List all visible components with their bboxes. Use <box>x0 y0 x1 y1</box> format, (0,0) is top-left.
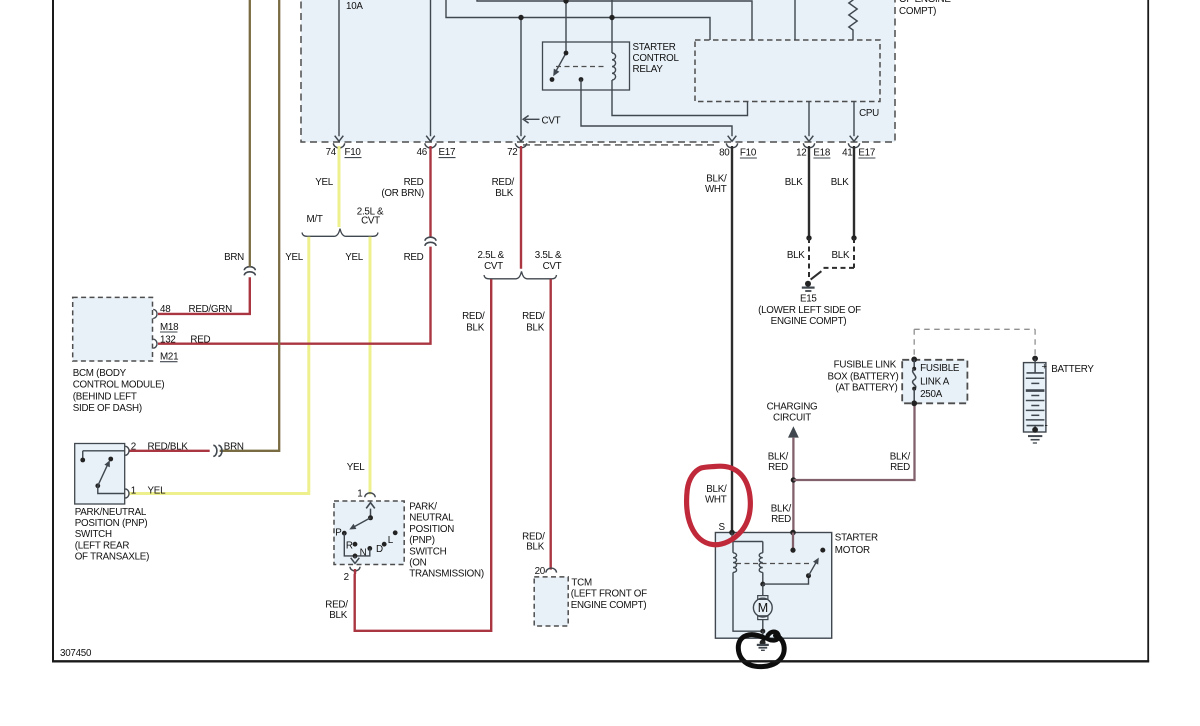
svg-text:74: 74 <box>326 147 337 158</box>
svg-text:BLK: BLK <box>787 250 805 261</box>
svg-text:(BEHIND LEFT: (BEHIND LEFT <box>73 391 137 402</box>
svg-text:ENGINE COMPT): ENGINE COMPT) <box>771 316 847 327</box>
svg-text:BCM (BODY: BCM (BODY <box>73 368 127 379</box>
svg-text:307450: 307450 <box>60 648 92 659</box>
svg-text:BLK: BLK <box>832 250 850 261</box>
svg-text:D: D <box>376 544 383 555</box>
svg-text:P: P <box>335 527 342 538</box>
svg-text:(ON: (ON <box>409 558 426 569</box>
svg-text:L: L <box>388 535 394 546</box>
svg-text:(LOWER LEFT SIDE OF: (LOWER LEFT SIDE OF <box>758 305 861 316</box>
svg-text:BLK: BLK <box>831 177 849 188</box>
svg-text:20: 20 <box>535 566 546 577</box>
svg-text:M21: M21 <box>160 352 178 363</box>
svg-text:OF TRANSAXLE): OF TRANSAXLE) <box>75 552 149 563</box>
svg-text:STARTER: STARTER <box>633 42 676 53</box>
svg-text:RED/GRN: RED/GRN <box>189 304 233 315</box>
svg-text:RED/: RED/ <box>462 311 485 322</box>
svg-text:RED/: RED/ <box>492 177 515 188</box>
svg-text:(LEFT FRONT OF: (LEFT FRONT OF <box>571 589 647 600</box>
svg-text:BATTERY: BATTERY <box>1051 364 1094 375</box>
svg-text:LINK A: LINK A <box>920 377 950 388</box>
svg-text:(OR BRN): (OR BRN) <box>381 188 424 199</box>
svg-text:+: + <box>1042 361 1048 372</box>
svg-text:YEL: YEL <box>148 485 167 496</box>
svg-text:RED: RED <box>771 514 791 525</box>
svg-text:POSITION (PNP): POSITION (PNP) <box>75 518 148 529</box>
svg-text:M18: M18 <box>160 322 179 333</box>
svg-text:SWITCH: SWITCH <box>409 546 446 557</box>
svg-text:BLK/: BLK/ <box>771 504 792 515</box>
svg-text:SWITCH: SWITCH <box>75 529 112 540</box>
svg-text:BLK/: BLK/ <box>890 452 911 463</box>
svg-text:(AT BATTERY): (AT BATTERY) <box>835 383 897 394</box>
svg-text:41: 41 <box>842 148 852 159</box>
svg-text:(PNP): (PNP) <box>409 535 434 546</box>
svg-text:(LEFT REAR: (LEFT REAR <box>75 540 130 551</box>
svg-text:CONTROL: CONTROL <box>633 53 680 64</box>
svg-text:YEL: YEL <box>315 177 334 188</box>
svg-text:80: 80 <box>719 148 730 159</box>
svg-text:PARK/: PARK/ <box>409 502 437 513</box>
svg-text:RED: RED <box>190 335 210 346</box>
svg-text:STARTER: STARTER <box>835 533 878 544</box>
svg-text:1: 1 <box>131 485 136 496</box>
svg-text:CONTROL MODULE): CONTROL MODULE) <box>73 380 165 391</box>
svg-text:12: 12 <box>796 148 806 159</box>
svg-text:FUSIBLE LINK: FUSIBLE LINK <box>834 359 897 370</box>
svg-text:10A: 10A <box>346 1 363 12</box>
svg-text:2: 2 <box>131 441 136 452</box>
svg-text:1: 1 <box>357 489 362 500</box>
svg-text:CVT: CVT <box>484 261 503 272</box>
svg-text:3.5L &: 3.5L & <box>535 250 562 261</box>
svg-text:250A: 250A <box>920 389 943 400</box>
svg-text:RED/: RED/ <box>325 599 348 610</box>
svg-text:TRANSMISSION): TRANSMISSION) <box>409 569 484 580</box>
svg-text:BLK/: BLK/ <box>768 452 789 463</box>
svg-text:NEUTRAL: NEUTRAL <box>409 513 454 524</box>
svg-text:RED/BLK: RED/BLK <box>148 442 189 453</box>
svg-text:TCM: TCM <box>571 577 592 588</box>
svg-text:CHARGING: CHARGING <box>767 402 818 413</box>
svg-text:POSITION: POSITION <box>409 524 454 535</box>
svg-text:CVT: CVT <box>542 116 561 127</box>
svg-text:RED: RED <box>890 462 910 473</box>
svg-text:R: R <box>346 540 353 551</box>
svg-text:PARK/NEUTRAL: PARK/NEUTRAL <box>75 507 147 518</box>
svg-text:BLK: BLK <box>466 323 484 334</box>
svg-text:CPU: CPU <box>859 108 879 119</box>
svg-text:WHT: WHT <box>705 184 727 195</box>
svg-text:E17: E17 <box>439 147 456 158</box>
svg-text:FUSIBLE: FUSIBLE <box>920 363 960 374</box>
svg-text:BOX (BATTERY): BOX (BATTERY) <box>828 371 899 382</box>
svg-text:46: 46 <box>417 147 428 158</box>
svg-text:RED: RED <box>404 177 424 188</box>
svg-text:SIDE OF DASH): SIDE OF DASH) <box>73 403 142 414</box>
svg-text:YEL: YEL <box>347 462 366 473</box>
svg-text:BLK: BLK <box>785 177 803 188</box>
svg-text:RED: RED <box>404 252 424 263</box>
svg-text:OF ENGINE: OF ENGINE <box>899 0 951 5</box>
svg-text:MOTOR: MOTOR <box>835 545 870 556</box>
svg-text:E17: E17 <box>858 148 875 159</box>
svg-text:WHT: WHT <box>705 494 727 505</box>
svg-text:72: 72 <box>507 147 517 158</box>
svg-text:RED: RED <box>768 462 788 473</box>
svg-text:2: 2 <box>344 572 349 583</box>
svg-text:BRN: BRN <box>224 442 244 453</box>
svg-text:F10: F10 <box>345 147 362 158</box>
svg-text:YEL: YEL <box>285 252 304 263</box>
svg-text:RELAY: RELAY <box>633 64 664 75</box>
svg-text:BRN: BRN <box>224 252 244 263</box>
svg-text:48: 48 <box>160 304 171 315</box>
svg-text:132: 132 <box>160 335 176 346</box>
svg-text:CVT: CVT <box>361 215 380 226</box>
svg-text:BLK: BLK <box>495 188 513 199</box>
svg-text:S: S <box>719 522 726 533</box>
svg-text:ENGINE COMPT): ENGINE COMPT) <box>571 600 647 611</box>
svg-text:CIRCUIT: CIRCUIT <box>773 413 811 424</box>
svg-text:YEL: YEL <box>345 252 364 263</box>
svg-text:E18: E18 <box>813 148 830 159</box>
svg-text:COMPT): COMPT) <box>899 6 936 17</box>
svg-text:BLK/: BLK/ <box>706 174 727 185</box>
svg-text:RED/: RED/ <box>522 311 545 322</box>
svg-text:-: - <box>1045 421 1048 432</box>
svg-text:BLK: BLK <box>526 323 544 334</box>
svg-text:F10: F10 <box>740 148 757 159</box>
svg-text:M/T: M/T <box>306 214 322 225</box>
svg-text:2.5L &: 2.5L & <box>477 250 504 261</box>
svg-text:E15: E15 <box>800 293 817 304</box>
svg-text:M: M <box>758 601 768 615</box>
svg-text:BLK: BLK <box>526 542 544 553</box>
svg-text:BLK/: BLK/ <box>706 484 727 495</box>
svg-text:CVT: CVT <box>543 261 562 272</box>
svg-text:N: N <box>360 547 367 558</box>
svg-text:BLK: BLK <box>329 610 347 621</box>
